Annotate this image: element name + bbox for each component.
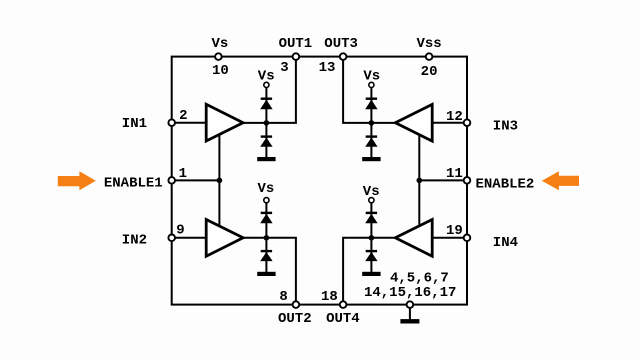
pin 20 circle (Vss) bbox=[426, 53, 433, 60]
op-amp buffer A3 (IN3) bbox=[395, 104, 432, 141]
svg-text:Vss: Vss bbox=[416, 36, 441, 52]
junction dot buffer2 output bbox=[264, 235, 270, 241]
pin 13 circle (OUT3) bbox=[340, 53, 347, 60]
wire buffer3 output to OUT3 bbox=[343, 57, 398, 123]
svg-text:8: 8 bbox=[279, 289, 287, 305]
svg-text:IN2: IN2 bbox=[122, 232, 147, 248]
pin 9 circle (IN2) bbox=[168, 234, 175, 241]
pin 3 circle (OUT1) bbox=[293, 53, 300, 60]
wire IN3 bbox=[432, 122, 467, 124]
svg-text:Vs: Vs bbox=[257, 181, 274, 197]
svg-text:11: 11 bbox=[446, 166, 463, 182]
svg-text:12: 12 bbox=[446, 109, 463, 125]
svg-text:Vs: Vs bbox=[363, 69, 380, 85]
svg-text:OUT4: OUT4 bbox=[326, 311, 360, 327]
diode clamp stack 1 (top-left) bbox=[257, 82, 275, 161]
pin 11 circle (ENABLE2) bbox=[464, 177, 471, 184]
svg-text:19: 19 bbox=[446, 223, 463, 239]
pin 10 circle (Vs) bbox=[215, 53, 222, 60]
op-amp buffer A1 (IN1) bbox=[206, 104, 243, 141]
pin 19 circle (IN4) bbox=[464, 234, 471, 241]
junction dot ENABLE2 bbox=[417, 178, 423, 184]
op-amp buffer A2 (IN2) bbox=[206, 220, 243, 257]
wire buffer1 output to OUT1 bbox=[240, 57, 296, 123]
svg-text:Vs: Vs bbox=[258, 68, 275, 84]
svg-text:Vs: Vs bbox=[211, 36, 228, 52]
wire buffer2 output to OUT2 bbox=[240, 238, 296, 305]
pin 1 circle (ENABLE1) bbox=[168, 177, 175, 184]
wire ground stub bbox=[409, 305, 411, 320]
wire buffer4 output to OUT4 bbox=[343, 238, 398, 305]
diode clamp stack 4 (bottom-right) bbox=[362, 198, 380, 276]
wire IN1 bbox=[172, 122, 207, 124]
svg-text:18: 18 bbox=[321, 289, 338, 305]
junction dot buffer4 output bbox=[369, 235, 375, 241]
wire ENABLE1 vertical to buffers 1,2 bbox=[218, 134, 220, 226]
wire ENABLE1 horizontal bbox=[172, 179, 220, 181]
svg-text:OUT1: OUT1 bbox=[279, 36, 313, 52]
svg-text:1: 1 bbox=[179, 166, 187, 182]
svg-text:OUT2: OUT2 bbox=[278, 311, 312, 327]
svg-text:10: 10 bbox=[212, 63, 229, 79]
svg-text:ENABLE1: ENABLE1 bbox=[104, 175, 163, 191]
svg-text:2: 2 bbox=[179, 108, 187, 124]
svg-text:9: 9 bbox=[176, 222, 184, 238]
svg-text:14,15,16,17: 14,15,16,17 bbox=[364, 285, 456, 301]
pin 18 circle (OUT4) bbox=[340, 301, 347, 308]
svg-text:13: 13 bbox=[319, 60, 336, 76]
junction dot buffer3 output bbox=[369, 120, 375, 126]
wire IN4 bbox=[432, 237, 467, 239]
svg-text:IN3: IN3 bbox=[493, 118, 518, 134]
wire ENABLE2 horizontal bbox=[419, 179, 467, 181]
arrow pointing at ENABLE1 bbox=[58, 171, 96, 190]
svg-text:IN1: IN1 bbox=[122, 116, 147, 132]
pin 2 circle (IN1) bbox=[168, 119, 175, 126]
pin circle (ground pins) bbox=[407, 301, 414, 308]
pin 12 circle (IN3) bbox=[464, 119, 471, 126]
wire IN2 bbox=[172, 237, 207, 239]
wire ENABLE2 vertical to buffers 3,4 bbox=[418, 134, 420, 226]
svg-text:ENABLE2: ENABLE2 bbox=[475, 176, 534, 192]
svg-text:3: 3 bbox=[280, 60, 288, 76]
IC boundary box bbox=[172, 57, 467, 305]
diode clamp stack 2 (bottom-left) bbox=[257, 198, 275, 276]
op-amp buffer A4 (IN4) bbox=[395, 220, 432, 257]
junction dot ENABLE1 bbox=[217, 178, 223, 184]
diode clamp stack 3 (top-right) bbox=[362, 82, 380, 161]
arrow pointing at ENABLE2 bbox=[542, 171, 579, 190]
pin 8 circle (OUT2) bbox=[293, 301, 300, 308]
svg-text:Vs: Vs bbox=[363, 184, 380, 200]
svg-text:OUT3: OUT3 bbox=[324, 36, 358, 52]
ground symbol (pins 4,5,6,7,14,15,16,17) bbox=[400, 319, 419, 323]
svg-text:20: 20 bbox=[421, 64, 438, 80]
svg-text:IN4: IN4 bbox=[493, 235, 518, 251]
junction dot buffer1 output bbox=[264, 120, 270, 126]
